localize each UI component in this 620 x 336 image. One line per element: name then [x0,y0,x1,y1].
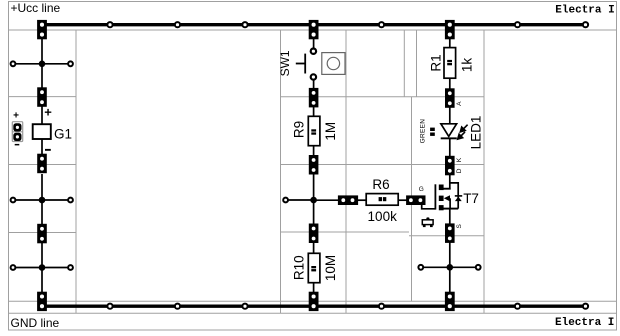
transistor T7 MOSFET symbol [422,183,459,210]
svg-text:LED1: LED1 [468,116,483,150]
svg-text:GREEN: GREEN [419,119,426,144]
label T7 [463,191,479,206]
G1 minus polarity mark [45,149,51,151]
svg-text:+Ucc line: +Ucc line [11,1,61,15]
pin label D [456,168,463,173]
pad T7 source [445,223,455,243]
label 100k [368,209,398,224]
wire R1 to anode pad [449,79,451,89]
label R1 [429,54,444,71]
wire Ucc rail pad to SW1 [313,39,315,48]
wire G1 body to G1 minus pad [41,140,43,156]
svg-text:SW1: SW1 [278,50,292,76]
pin label K [456,157,463,162]
label 1M [323,122,338,141]
pad R9 bottom [309,155,319,175]
pad Ucc rail left [37,20,47,39]
svg-text:+: + [44,105,52,120]
label Electra I bottom [555,317,614,329]
node junction T7 source [447,264,454,271]
svg-text:Electra I: Electra I [555,4,614,16]
wire left junction row 3 horizontal [13,267,71,269]
G1 plus polarity mark [44,105,52,120]
svg-text:K: K [456,157,463,162]
pad LED cathode / T7 drain shared [445,156,455,176]
pad G1 plus terminal [37,87,47,107]
svg-text:R6: R6 [372,177,389,192]
battery G1 body [33,124,51,139]
terminal via middle row [283,198,288,203]
label R6 [372,177,389,192]
T7 body diode [455,195,462,201]
resistor R1 body [444,48,456,79]
wire left mid pad to GND rail pad [41,243,43,293]
wire R10 pad to R10 body [313,243,315,253]
wire R6 body to R6 right pad [399,199,407,201]
svg-text:S: S [456,223,463,228]
Ucc bus terminal vias [107,22,588,27]
svg-text:Electra I: Electra I [555,317,614,329]
pad GND rail middle [309,292,319,311]
svg-text:R10: R10 [291,255,306,280]
resistor R9 body [308,116,320,145]
label +Ucc line [11,1,61,15]
pin label G [419,186,424,193]
node junction left row 2 [39,197,46,204]
node junction left row 3 [39,264,46,271]
wire Ucc rail pad to R1 [449,39,451,47]
svg-text:G1: G1 [54,126,72,141]
label GREEN [419,119,426,144]
wire R6 left pad to R6 body [358,199,366,201]
wire shared pad to R9 [313,107,315,116]
wire G1 minus pad to left mid pad [41,174,43,224]
pad G1 minus terminal [37,154,47,174]
+Ucc bus wire [39,23,586,26]
SW1 pushbutton icon [322,53,345,75]
label LED1 [468,116,483,150]
svg-text:G: G [419,186,424,193]
T7 source arrow [444,195,450,201]
wire Ucc rail pad to junction row 1 [41,39,43,88]
label GND line [11,316,60,330]
resistor R6 body [366,194,398,206]
LED1 footprint icon [430,128,435,136]
wire anode pad to LED1 [449,108,451,125]
pad GND rail left [37,292,47,311]
wire left junction row 1 horizontal [13,63,71,65]
terminal vias left row 1 [11,61,73,66]
label Electra I top [555,4,614,16]
terminal vias left row 2 [11,198,73,203]
pad SW1/R9 shared [309,88,319,108]
label R9 [291,121,306,138]
wire R9 pad to junction to R10 pad [313,174,315,224]
label 10M [323,255,338,281]
svg-text:GND line: GND line [11,316,60,330]
wire source pad to junction to GND rail pad [449,243,451,293]
wire T7 to source pad [449,209,451,224]
wire SW1 to shared pad [313,80,315,88]
pad Ucc rail middle [309,20,319,39]
label SW1 [278,50,292,76]
pin label S [456,223,463,228]
pad R1/LED anode shared [445,88,455,108]
pad left column mid [37,224,47,244]
svg-text:D: D [456,168,463,173]
svg-text:+: + [13,110,19,121]
wire T7 source junction row [421,266,478,268]
wire left junction row 2 horizontal [13,199,71,201]
node junction left row 1 [39,61,46,68]
GND bus wire [39,305,586,308]
resistor R10 body [308,253,320,282]
T7 package icon [422,217,433,227]
wire LED1 to cathode pad [449,139,451,157]
svg-text:1k: 1k [459,58,474,73]
pad Ucc rail right [445,20,455,39]
wire drain pad to T7 [449,175,451,190]
svg-text:10M: 10M [323,255,338,281]
GND bus terminal vias [107,304,588,309]
svg-text:A: A [456,101,463,106]
svg-text:T7: T7 [463,191,479,206]
wire G1 plus pad to G1 body [41,107,43,124]
wire middle junction to R6 left pad [314,199,338,201]
switch SW1 symbol [296,49,316,80]
svg-text:R9: R9 [291,121,306,138]
pad R10 top [309,224,319,244]
label 1k [459,58,474,73]
terminal vias left row 3 [11,265,73,270]
LED1 light arrows [458,125,468,139]
wire R9 to bottom pad [313,146,315,155]
pad R6 right / T7 gate [406,195,425,205]
svg-text:R1: R1 [429,54,444,71]
terminal vias T7 source row [418,265,480,270]
LED1 diode symbol [441,124,457,139]
pin label A [456,101,463,106]
G1 connector footprint icon [12,110,22,145]
wire R10 body to GND rail pad [313,283,315,292]
pad R6 left [338,195,358,205]
label R10 [291,255,306,280]
label G1 [54,126,72,141]
wire middle junction to left via [286,199,314,201]
svg-text:1M: 1M [323,122,338,141]
pad GND rail right [445,292,455,311]
node junction middle [310,197,317,204]
svg-text:100k: 100k [368,209,398,224]
